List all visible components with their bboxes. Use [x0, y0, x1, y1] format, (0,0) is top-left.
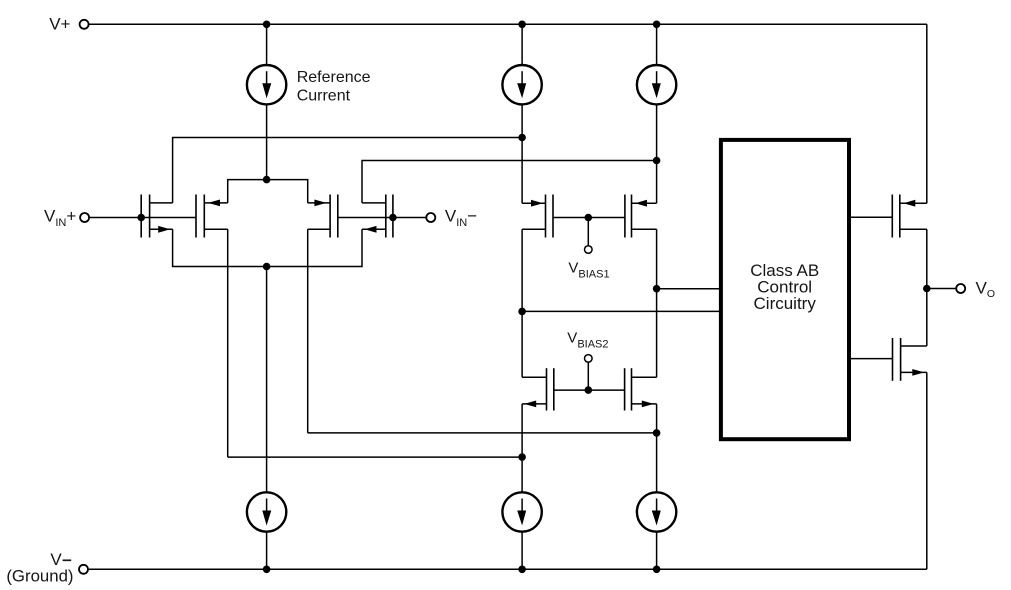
current source I3 [637, 65, 676, 104]
terminal VO [956, 284, 965, 293]
wire box to lower output gate [851, 358, 893, 360]
wire M1 drain up and across to node at I2 column (y=137.5) [173, 138, 522, 203]
wire node B to Class AB box (y=311.4) [522, 310, 719, 312]
wire right cascode column M6 drain to M8 drain [656, 229, 658, 377]
wire from top rail to reference current source [266, 24, 268, 65]
wire I5 to bottom rail [521, 532, 523, 570]
terminal VIN+ [80, 213, 89, 222]
wire from top rail to current source I2 [521, 24, 523, 65]
wire cross y=457.1 to left cascode column [228, 456, 522, 458]
svg-text:VBIAS2: VBIAS2 [567, 330, 608, 351]
node bottom rail / I4 [263, 566, 271, 574]
svg-text:Current: Current [297, 87, 351, 104]
terminal VBIAS2 [585, 355, 593, 363]
node y457.1 / I5 column [518, 453, 526, 461]
node M1 drain / I2 column [518, 134, 526, 142]
transistor M4 (outer-right NMOS input) [362, 195, 393, 238]
transistor M10 (lower output NMOS) [893, 338, 927, 381]
wire VIN+ input to gates of M1,M2 [89, 217, 196, 219]
wire M9 drain to output node [926, 229, 928, 288]
transistor M8 (right lower cascode NMOS) [625, 368, 657, 410]
wire I3 down to cascode M6 source [656, 104, 658, 203]
wire right-bottom vertical from lower output transistor [926, 372, 928, 569]
transistor M2 (inner-left PMOS input) [196, 195, 228, 238]
wire top rail V+ [89, 23, 927, 25]
wire right-top vertical to upper output transistor [926, 24, 928, 203]
node P-pair source [263, 176, 271, 184]
node left cascode to box [518, 308, 526, 316]
wire N-pair common source node [173, 229, 362, 266]
transistor M9 (upper output PMOS) [892, 195, 927, 238]
svg-text:V+: V+ [49, 15, 70, 34]
wire left cascode column M5 drain to M7 drain [521, 229, 523, 377]
wire VBIAS2 stem [587, 362, 589, 390]
wire node A to Class AB box (y=288.7) [657, 288, 719, 290]
node bottom rail / I5 [518, 566, 526, 574]
node top rail / I2 [518, 21, 526, 29]
node VIN- gate [389, 214, 397, 222]
svg-text:VIN+: VIN+ [44, 207, 76, 230]
current source I4 [247, 492, 286, 531]
wire cross y=432.9 to right cascode column [308, 432, 657, 434]
wire VBIAS2 gate bus [554, 389, 625, 391]
wire M2 drain down to y=457.1 rail [227, 229, 229, 457]
terminal VBIAS1 [585, 246, 593, 254]
node output [923, 285, 931, 293]
terminal VIN- [426, 213, 435, 222]
current source I1 (reference) [247, 65, 286, 104]
node M4 drain / I3 column [653, 157, 661, 165]
Class AB Control Circuitry box [721, 140, 849, 439]
current source I6 [637, 492, 676, 531]
wire output node to M10 drain [926, 289, 928, 347]
svg-text:Reference: Reference [297, 69, 371, 86]
node VIN+ gate [137, 214, 145, 222]
transistor M5 (left upper cascode PMOS) [522, 195, 553, 238]
wire I6 to bottom rail [656, 532, 658, 570]
wire output node to VO terminal [927, 288, 956, 290]
wire M8 source down to current source I6 [656, 404, 658, 492]
svg-text:VO: VO [976, 279, 996, 301]
transistor M3 (inner-right PMOS input) [308, 195, 338, 238]
wire I2 down to cascode M5 source [521, 104, 523, 203]
transistor M1 (outer-left NMOS input) [141, 195, 172, 238]
node top rail / I1 [263, 21, 271, 29]
wire P-pair common source node horizontals [228, 180, 308, 203]
current source I2 [502, 65, 541, 104]
node top rail / I3 [653, 21, 661, 29]
wire M7 source down to current source I5 [521, 404, 523, 492]
wire M3 drain down to y=432.9 rail [307, 229, 309, 433]
wire I4 to bottom rail [266, 532, 268, 570]
node y432.9 / I6 column [653, 429, 661, 437]
wire bottom rail V- [89, 568, 927, 570]
wire VBIAS1 stem [587, 218, 589, 246]
svg-text:VIN−: VIN− [445, 207, 477, 230]
wire from top rail to current source I3 [656, 24, 658, 65]
current source I5 [502, 492, 541, 531]
svg-text:(Ground): (Ground) [6, 566, 73, 585]
svg-text:Circuitry: Circuitry [754, 294, 817, 313]
terminal V- (Ground) [79, 565, 88, 574]
wire VIN- input to gates of M3,M4 [338, 217, 426, 219]
transistor M7 (left lower cascode NMOS) [522, 368, 554, 410]
wire M4 drain up and across to node at I3 column (y=160.5) [362, 161, 657, 203]
node VBIAS2 gate [585, 386, 593, 394]
terminal V+ [80, 20, 89, 29]
wire reference current to P-pair source node [266, 104, 268, 179]
wire VBIAS1 gate bus [553, 217, 625, 219]
wire N-pair tail down to current source I4 [266, 267, 268, 493]
node bottom rail / I6 [653, 566, 661, 574]
node N-pair source [263, 263, 271, 271]
wire box to upper output gate [851, 216, 893, 218]
transistor M6 (right upper cascode PMOS) [625, 195, 657, 238]
node VBIAS1 gate [585, 214, 593, 222]
svg-text:VBIAS1: VBIAS1 [568, 260, 609, 281]
node right cascode to box [653, 285, 661, 293]
